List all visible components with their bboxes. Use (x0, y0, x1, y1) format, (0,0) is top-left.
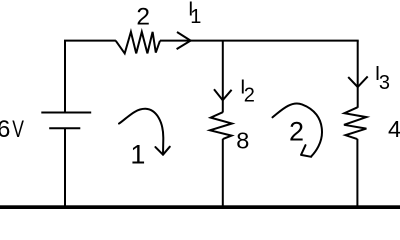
mesh arrow 1 (clockwise arc, left loop) (119, 109, 163, 155)
wire top-left horizontal + left vertical drop (65, 41, 116, 113)
svg-text:3: 3 (379, 72, 390, 94)
svg-text:2: 2 (136, 3, 150, 30)
wire right vertical bottom segment (356, 139, 358, 207)
svg-text:6: 6 (0, 116, 10, 143)
battery V1 6V bottom plate (short) (49, 127, 80, 129)
wire left vertical from battery to bottom rail (64, 128, 66, 207)
current arrow I3 (downward open arrowhead on right wire) (348, 76, 368, 87)
svg-text:2: 2 (289, 117, 304, 147)
battery V1 6V top plate (long) (41, 112, 91, 114)
mesh arrow 2 arrowhead (301, 145, 311, 157)
svg-text:1: 1 (190, 6, 201, 28)
current arrow I1 (right-pointing open arrowhead on top wire) (177, 32, 191, 49)
wire top horizontal to right corner (160, 40, 359, 42)
svg-text:8: 8 (236, 127, 249, 153)
svg-text:4: 4 (388, 116, 400, 142)
mesh arrow 1 arrowhead (155, 147, 169, 155)
resistor R3 4ohm vertical zigzag (344, 107, 366, 139)
svg-text:1: 1 (130, 139, 145, 169)
wire middle vertical bottom segment (222, 139, 224, 207)
resistor R1 2ohm horizontal zigzag (116, 32, 160, 54)
mesh arrow 2 (clockwise curled arc, right loop) (273, 103, 323, 156)
current arrow I2 (downward open arrowhead on middle wire) (214, 89, 232, 100)
resistor R2 8ohm vertical zigzag (210, 112, 232, 139)
svg-text:2: 2 (244, 85, 255, 107)
bottom ground rail (full-width baseline) (0, 205, 400, 209)
wire middle vertical top segment (222, 40, 224, 113)
svg-text:V: V (12, 117, 24, 143)
wire right vertical top segment (357, 41, 359, 108)
